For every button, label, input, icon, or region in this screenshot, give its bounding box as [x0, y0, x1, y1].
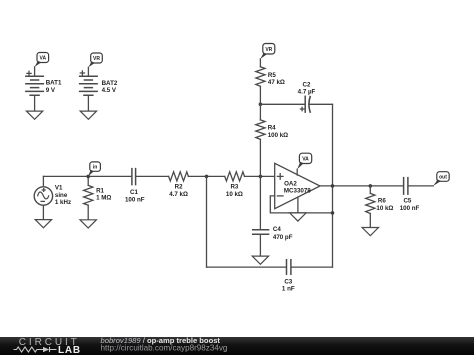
BAT2 plates	[79, 76, 98, 95]
wire C2 to right vertical	[310, 103, 333, 105]
wire main input row	[43, 175, 131, 177]
node junction feedback/output rail	[331, 211, 335, 215]
resistor R1	[80, 176, 111, 228]
node junction R2/R3 tap	[205, 175, 209, 179]
wire bottom rail left	[207, 266, 286, 268]
capacitor C3	[282, 259, 295, 293]
BAT1 plus sign	[27, 71, 31, 75]
svg-text:4.7 µF: 4.7 µF	[298, 88, 316, 95]
wire BAT1 top stub	[34, 67, 36, 76]
svg-text:470 pF: 470 pF	[273, 234, 293, 241]
opamp V- stub	[297, 197, 299, 213]
flag VA (BAT1)	[35, 53, 49, 67]
svg-text:C4: C4	[273, 226, 281, 233]
resistor R2	[169, 172, 189, 198]
footer bar	[0, 336, 474, 355]
wire R3 to op-amp	[245, 175, 275, 177]
wire C4 to ground	[259, 234, 261, 256]
svg-text:4.5 V: 4.5 V	[102, 87, 117, 94]
wire right vertical rail	[332, 104, 334, 267]
svg-text:100 nF: 100 nF	[400, 205, 420, 212]
svg-text:VA: VA	[302, 157, 309, 163]
wire left vertical tap	[206, 176, 208, 267]
ground (V1)	[35, 220, 51, 228]
svg-text:4.7 kΩ: 4.7 kΩ	[169, 191, 188, 198]
capacitor C5	[400, 177, 420, 212]
wire C5 to out	[408, 185, 433, 187]
wire R6 to ground	[369, 214, 371, 228]
svg-text:out: out	[439, 175, 447, 181]
ground (BAT2)	[80, 111, 96, 119]
BAT2 plus sign	[80, 71, 84, 75]
node junction input	[86, 175, 90, 179]
svg-text:R3: R3	[230, 183, 238, 190]
svg-text:in: in	[93, 165, 97, 171]
svg-text:R5: R5	[268, 72, 276, 79]
ground (C4)	[252, 256, 268, 264]
ground (op-amp)	[290, 213, 306, 221]
capacitor C1	[125, 168, 145, 204]
wire R4 to input node	[259, 139, 261, 176]
svg-text:R2: R2	[175, 183, 183, 190]
svg-text:R4: R4	[268, 125, 276, 132]
svg-text:BAT1: BAT1	[46, 79, 62, 86]
svg-text:OA2: OA2	[284, 180, 297, 187]
V1 plus mark	[42, 189, 45, 192]
svg-text:VR: VR	[93, 56, 100, 62]
opamp V+ stub	[296, 169, 298, 175]
wire output row	[320, 185, 403, 187]
ground (R6)	[362, 228, 378, 236]
svg-text:1 kHz: 1 kHz	[55, 199, 71, 206]
svg-text:C5: C5	[403, 197, 411, 204]
node junction R5/R4/C2	[259, 103, 263, 107]
wire BAT2 to ground	[87, 95, 89, 111]
wire node to C4	[259, 176, 261, 229]
flag VR (R5)	[260, 44, 274, 59]
resistor R4	[256, 104, 288, 176]
capacitor C2 (polarized)	[298, 82, 316, 113]
svg-text:VA: VA	[40, 56, 47, 62]
ground (R1)	[80, 220, 96, 228]
C2 plus sign	[300, 107, 303, 110]
svg-text:R1: R1	[96, 187, 104, 194]
wire node to C2	[260, 103, 304, 105]
capacitor C4	[252, 226, 293, 264]
svg-text:VR: VR	[265, 47, 272, 53]
svg-text:LAB: LAB	[58, 345, 81, 355]
svg-text:9 V: 9 V	[46, 87, 56, 94]
svg-text:V1: V1	[55, 185, 63, 192]
opamp minus input mark	[277, 195, 283, 197]
wire V1 to ground	[42, 205, 44, 219]
svg-text:BAT2: BAT2	[102, 80, 118, 87]
svg-text:100 nF: 100 nF	[125, 197, 145, 204]
logo diode	[43, 347, 49, 352]
battery BAT1	[25, 53, 62, 120]
svg-text:10 kΩ: 10 kΩ	[226, 191, 243, 198]
flag VA (op-amp)	[297, 153, 311, 169]
logo squiggle resistor	[14, 347, 44, 352]
svg-text:sine: sine	[55, 192, 68, 199]
svg-text:47 kΩ: 47 kΩ	[268, 79, 285, 86]
V1 minus mark	[41, 200, 44, 202]
resistor R3	[225, 172, 245, 198]
flag in	[88, 162, 100, 176]
svg-text:100 kΩ: 100 kΩ	[268, 132, 288, 139]
wire bottom rail right	[292, 266, 333, 268]
node junction R3/opamp	[259, 175, 263, 179]
battery BAT2	[79, 53, 118, 119]
V1 sine wave	[38, 192, 49, 199]
wire C1 to R2	[136, 175, 168, 177]
svg-text:C3: C3	[284, 279, 292, 286]
svg-text:10 kΩ: 10 kΩ	[376, 205, 393, 212]
flag VR (BAT2)	[88, 53, 102, 67]
svg-text:MC33078: MC33078	[284, 187, 311, 194]
resistor R6	[362, 186, 393, 236]
svg-text:R6: R6	[378, 197, 386, 204]
svg-text:C1: C1	[130, 189, 138, 196]
wire BAT2 top stub	[87, 67, 89, 76]
svg-text:1 MΩ: 1 MΩ	[96, 195, 111, 202]
node junction output rail	[331, 184, 335, 188]
BAT1 plates	[25, 76, 44, 95]
wire V1 top	[42, 176, 44, 186]
svg-text:1 nF: 1 nF	[282, 286, 295, 293]
opamp plus input mark	[277, 174, 283, 180]
node junction R6	[369, 184, 373, 188]
wire feedback loop	[270, 196, 332, 213]
op-amp OA2	[275, 153, 320, 221]
svg-text:http://circuitlab.com/cayp8r98: http://circuitlab.com/cayp8r98z34vg	[101, 344, 228, 353]
ground (BAT1)	[26, 111, 42, 119]
wire R2 to R3	[188, 175, 224, 177]
wire R5 to node	[259, 86, 261, 104]
voltage source V1	[34, 176, 71, 227]
flag out	[433, 172, 449, 186]
resistor R5	[256, 59, 285, 104]
wire BAT1 to ground	[34, 95, 36, 111]
wire R1 to ground	[87, 205, 89, 220]
